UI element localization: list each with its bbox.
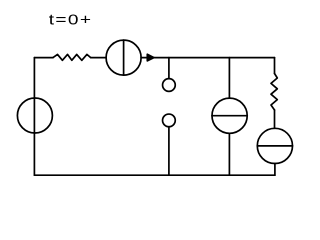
arrow current direction	[147, 54, 154, 61]
current source I1	[106, 40, 141, 75]
wire left branch	[33, 58, 35, 176]
wire right branch middle	[274, 110, 276, 128]
wire right branch bottom	[274, 164, 276, 176]
wire top-left	[34, 57, 53, 59]
wire top-right run	[141, 57, 274, 59]
wire resistor to source	[91, 57, 106, 59]
wire middle branch bottom	[228, 133, 230, 175]
voltage source V1	[17, 98, 52, 133]
wire switch bottom stub	[168, 127, 170, 175]
resistor R2	[271, 74, 277, 111]
wire middle branch top	[228, 58, 230, 99]
switch contact bottom	[163, 114, 176, 127]
current source I3	[257, 128, 292, 163]
wire right branch top	[274, 58, 276, 74]
switch contact top	[163, 79, 176, 92]
wire bottom	[34, 174, 275, 176]
current source I2	[212, 98, 247, 133]
resistor R1	[53, 54, 91, 60]
svg-text:t=0+: t=0+	[49, 13, 93, 29]
wire switch top stub	[168, 58, 170, 79]
